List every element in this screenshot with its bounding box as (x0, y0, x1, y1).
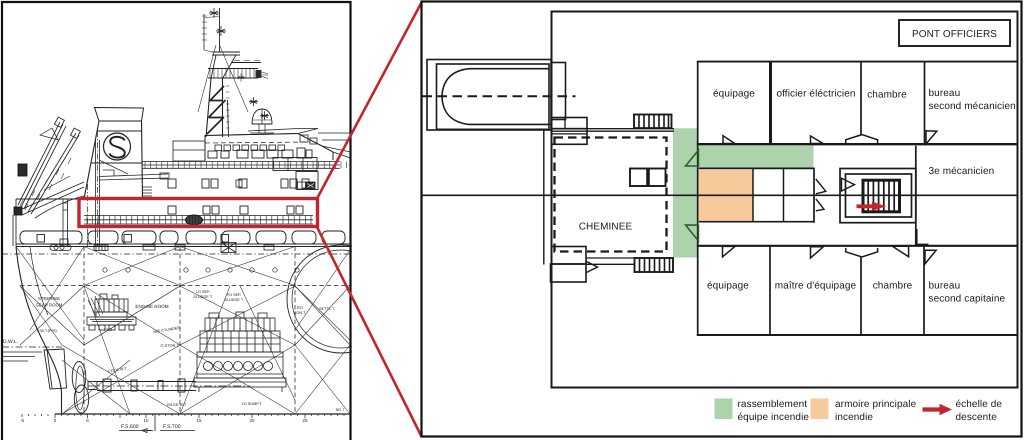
radar dome (252, 109, 272, 124)
lifeboat dashed centerline (423, 95, 576, 97)
tween deck dash-dot line (2, 253, 351, 255)
upper deck railing (142, 162, 347, 169)
forecastle lines at bow side (322, 146, 351, 158)
middle block bottom wall (699, 221, 814, 223)
keel baseline (55, 413, 350, 415)
bottom boarding ladder (hatched) (635, 258, 674, 272)
water surface marks (2, 352, 42, 361)
wall officier | chambre (860, 62, 862, 135)
svg-text:second capitaine: second capitaine (929, 293, 1006, 304)
locker box A left of casing (552, 247, 587, 265)
dark oval life-raft on rail (186, 215, 203, 225)
shaft couplings (103, 379, 111, 392)
propeller hub (88, 382, 97, 390)
winch boxes inside casing (630, 169, 666, 187)
funnel casing deck double line (bottom) (586, 258, 635, 264)
lifeboat outer platform (427, 60, 551, 131)
red descent arrow (857, 204, 875, 208)
svg-text:descente: descente (956, 412, 998, 423)
wall chambre | bureau capitaine (923, 246, 925, 335)
stack lower box (552, 129, 588, 145)
deck plan frame (552, 12, 1018, 388)
radar mast tower (198, 8, 268, 137)
small platform (212, 52, 240, 55)
svg-text:CHEMINEE: CHEMINEE (579, 222, 633, 233)
lower tween deck dashed line (20, 285, 351, 287)
svg-text:B'D: B'D (297, 306, 303, 310)
svg-text:FO SEP.: FO SEP. (227, 293, 242, 297)
middle block right wall (813, 168, 815, 223)
green muster corridor band (699, 146, 814, 169)
double door swing chambre bottom (846, 248, 878, 257)
door swing bureau capitaine (925, 250, 936, 264)
stack upper box (552, 118, 588, 129)
frame spacing labels F.S.600 F.S.700 (121, 424, 181, 430)
stairwell outer box (840, 169, 916, 223)
svg-text:D.W.L.: D.W.L. (3, 339, 18, 345)
svg-text:chambre: chambre (873, 281, 913, 292)
svg-text:5: 5 (86, 418, 89, 423)
window squares row above red highlight (168, 179, 309, 188)
legend green swatch (715, 399, 733, 420)
svg-text:GEAR ROOM: GEAR ROOM (36, 303, 63, 308)
superstructure deck line at funnel base (16, 198, 318, 200)
davit connector lines (544, 125, 552, 130)
wall chambre | bureau (924, 62, 926, 145)
engine room dashed bulkheads (84, 247, 295, 415)
svg-text:BILGE W.T.: BILGE W.T. (167, 403, 187, 407)
door swing maître bottom (811, 247, 824, 258)
svg-text:STEERING: STEERING (38, 296, 61, 301)
svg-text:SLUDGE T.: SLUDGE T. (193, 295, 213, 299)
compartment labels (36, 290, 345, 412)
boat crane boom over deck (99, 160, 169, 196)
door swing chambre bottom flag (892, 246, 908, 257)
door swing équipage top (723, 136, 735, 144)
door swing mid lower (816, 199, 824, 211)
door swing officier top (811, 136, 824, 144)
main engine block (194, 312, 286, 392)
svg-text:PONT OFFICIERS: PONT OFFICIERS (912, 29, 997, 40)
bottom row ceiling wall (corridor bottom) (697, 245, 1018, 247)
antenna stars (209, 8, 269, 120)
svg-text:armoire principale: armoire principale (835, 399, 917, 410)
funnel casing deck double line (top) (552, 129, 675, 132)
stern crane lattice booms (13, 117, 84, 246)
svg-text:F.S.700: F.S.700 (163, 424, 181, 430)
door swing at 3e mécanicien wall (917, 229, 929, 244)
PONT OFFICIERS label box (899, 20, 1010, 46)
portholes row (103, 268, 299, 272)
wall équipage | officier (769, 62, 772, 145)
svg-text:officier éléctricien: officier éléctricien (776, 89, 855, 100)
funnel (95, 108, 144, 122)
lifeboat hull shape (442, 69, 549, 125)
dark green door swing upper on strip (686, 150, 699, 166)
door swing at lockers (587, 262, 598, 273)
central corridor midline (422, 194, 1018, 196)
svg-text:échelle de: échelle de (956, 399, 1003, 410)
deck railing inside red highlight (84, 216, 313, 225)
deck fittings on main deck (50, 243, 274, 253)
big bow circle (tank cross-section) (287, 245, 395, 353)
bottom row floor wall (697, 334, 1018, 336)
deckhouse between funnel and bridge (173, 141, 205, 161)
CHEMINEE dashed casing (555, 138, 667, 252)
svg-text:équipage: équipage (713, 89, 755, 100)
kingpost dash-dot centerlines (97, 131, 99, 246)
window row on bridge deck (208, 148, 312, 158)
red callout line bottom (317, 226, 422, 437)
svg-text:F.S.600: F.S.600 (121, 424, 139, 430)
superstructure deck band (inside red highlight): window squares (168, 206, 303, 214)
top boarding ladder (hatched) (634, 115, 672, 129)
wheelhouse windows (215, 135, 317, 151)
stairwell door swing (842, 178, 855, 191)
svg-text:25: 25 (302, 418, 308, 423)
top row ceiling wall (697, 61, 1018, 63)
upper yard (231, 62, 261, 64)
middle block divider 1 (752, 169, 754, 222)
davit box (552, 63, 566, 120)
double door swing chambre top (846, 135, 878, 144)
ruler ticks (22, 414, 344, 418)
wheelhouse block (205, 134, 333, 161)
bulwark freeing port slots (20, 231, 345, 244)
stern inner frame line (30, 247, 48, 316)
svg-text:15: 15 (196, 418, 202, 423)
svg-text:SON.T.: SON.T. (294, 311, 306, 315)
auxiliary engine block (87, 294, 136, 330)
D.W.L. waterline (2, 346, 62, 348)
svg-text:F.W.T.(P/S): F.W.T.(P/S) (37, 328, 57, 333)
middle block top wall (699, 167, 814, 169)
tank lattice diagonals (16, 247, 350, 415)
orange fire-cabinet cells (699, 170, 753, 221)
red callout line top (317, 3, 422, 200)
svg-text:COOL W.T.: COOL W.T. (108, 366, 128, 374)
left drawing border frame (2, 2, 351, 440)
svg-text:10: 10 (143, 418, 149, 423)
svg-text:second mécanicien: second mécanicien (929, 101, 1016, 112)
svg-text:maître d'équipage: maître d'équipage (775, 281, 857, 292)
legend orange swatch (811, 399, 829, 420)
door swing mid upper (816, 179, 826, 194)
svg-text:2/6.2: 2/6.2 (104, 327, 113, 332)
svg-text:3e mécanicien: 3e mécanicien (929, 166, 995, 177)
svg-text:SETTL.T.: SETTL.T. (319, 307, 335, 311)
legend red arrow (923, 407, 942, 411)
lifeboat inner housing (437, 64, 550, 129)
svg-text:LO SUMP.T.: LO SUMP.T. (242, 402, 263, 406)
svg-text:LO SEP.: LO SEP. (196, 290, 210, 294)
bridge wing box (273, 158, 317, 171)
svg-text:ENGINE ROOM: ENGINE ROOM (135, 304, 168, 309)
stairwell inner box (846, 174, 912, 217)
door swing bureau mécanicien (926, 131, 937, 144)
svg-text:-5: -5 (20, 418, 24, 423)
deck edge line left of frame (543, 130, 545, 265)
svg-text:0: 0 (54, 418, 57, 423)
svg-text:équipage: équipage (707, 281, 749, 292)
svg-text:rassemblement: rassemblement (738, 399, 808, 410)
ruler numbers (20, 418, 308, 423)
wall right of stairwell (915, 146, 917, 246)
svg-text:équipe incendie: équipe incendie (738, 412, 810, 423)
svg-text:chambre: chambre (867, 90, 907, 101)
funnel S logo (104, 133, 131, 160)
wall équipage | maître (769, 246, 771, 335)
svg-text:bureau: bureau (929, 88, 961, 99)
propeller blades (72, 362, 86, 393)
svg-text:20: 20 (249, 418, 255, 423)
svg-text:SLUDGE T.: SLUDGE T. (224, 298, 244, 302)
svg-text:NO.7: NO.7 (336, 408, 345, 412)
red highlight rectangle on ship drawing (79, 199, 318, 227)
wall maître | chambre (860, 257, 862, 335)
locker box B below (551, 264, 587, 282)
svg-text:bureau: bureau (929, 281, 961, 292)
engine casing below bridge (296, 172, 318, 190)
main deck line (16, 246, 351, 248)
stern hull outline (16, 247, 62, 415)
mast stays (198, 45, 248, 112)
dark green door swing lower on strip (686, 225, 699, 241)
rudder (44, 349, 67, 389)
svg-text:O.STOR.T.: O.STOR.T. (161, 343, 180, 348)
descent ladder hatch (863, 180, 900, 212)
green muster strip (vertical, right of funnel) (673, 128, 698, 257)
mast main platform (208, 69, 258, 79)
rooms left wall (697, 62, 699, 335)
svg-text:incendie: incendie (835, 412, 873, 423)
top pole (219, 8, 221, 52)
door swing équipage bottom (723, 246, 736, 257)
propeller shaft (97, 382, 196, 391)
top row floor wall (corridor top) (697, 143, 1018, 145)
svg-text:M/E CYLINDER: M/E CYLINDER (153, 326, 181, 334)
outer callout panel box (422, 2, 1022, 437)
middle block divider 2 (783, 169, 785, 222)
